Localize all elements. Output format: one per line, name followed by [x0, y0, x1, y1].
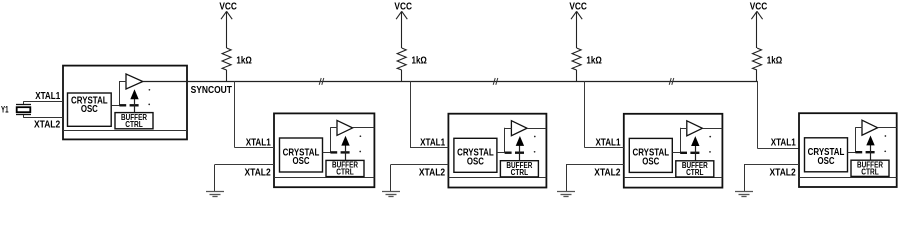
svg-text:CTRL: CTRL [511, 167, 529, 177]
svg-text:OSC: OSC [467, 155, 484, 166]
svg-text:XTAL2: XTAL2 [769, 166, 795, 178]
svg-text:1kΩ: 1kΩ [412, 55, 427, 66]
svg-text:VCC: VCC [394, 1, 412, 12]
svg-text:SYNCOUT: SYNCOUT [191, 83, 233, 95]
svg-text:1kΩ: 1kΩ [767, 55, 782, 66]
svg-text:XTAL2: XTAL2 [34, 118, 60, 130]
svg-text:XTAL1: XTAL1 [420, 137, 445, 148]
svg-text:XTAL1: XTAL1 [771, 137, 796, 148]
svg-text:Y1: Y1 [1, 104, 9, 114]
svg-text:OSC: OSC [292, 155, 309, 166]
svg-text:VCC: VCC [569, 1, 587, 12]
svg-text:OSC: OSC [817, 155, 834, 166]
svg-text:OSC: OSC [81, 103, 98, 114]
svg-text:1kΩ: 1kΩ [586, 55, 601, 66]
svg-text:XTAL1: XTAL1 [246, 137, 271, 148]
svg-text:CTRL: CTRL [861, 167, 879, 177]
svg-text:XTAL1: XTAL1 [35, 90, 60, 101]
svg-text:XTAL2: XTAL2 [419, 166, 445, 178]
svg-text:VCC: VCC [750, 1, 768, 12]
svg-text:CTRL: CTRL [125, 119, 143, 129]
svg-text:XTAL2: XTAL2 [244, 166, 270, 178]
svg-text:OSC: OSC [642, 156, 659, 167]
svg-text:VCC: VCC [219, 1, 237, 12]
svg-text:CTRL: CTRL [686, 167, 704, 177]
svg-text:CTRL: CTRL [336, 167, 354, 177]
svg-text:XTAL1: XTAL1 [595, 137, 620, 148]
svg-text:XTAL2: XTAL2 [594, 166, 620, 178]
svg-text:1kΩ: 1kΩ [236, 55, 251, 66]
